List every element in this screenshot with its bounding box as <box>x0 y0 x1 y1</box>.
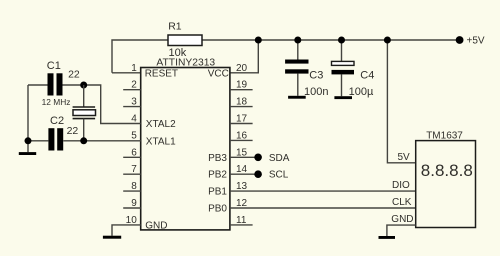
right pin stubs <box>230 90 416 225</box>
wire: C3 bottom to ground <box>297 74 299 96</box>
wire pin 3 stub <box>123 106 141 108</box>
svg-text:C4: C4 <box>360 70 374 82</box>
svg-text:PB2: PB2 <box>208 170 227 181</box>
+5V terminal <box>456 36 464 44</box>
svg-text:PB3: PB3 <box>208 153 227 164</box>
wire pin 13 to TM1637 DIO <box>230 190 416 192</box>
capacitor C3 <box>285 60 308 64</box>
svg-text:XTAL1: XTAL1 <box>146 136 176 147</box>
wire pin 18 stub <box>230 106 253 108</box>
wire pin 14 to SCL terminal <box>230 173 258 175</box>
wire pin 16 stub <box>230 139 253 141</box>
node: left rail / C2 junction <box>25 137 32 144</box>
wire: VCC drop to pin 20 <box>230 40 258 73</box>
svg-text:12: 12 <box>236 198 248 209</box>
svg-text:22: 22 <box>67 125 79 137</box>
wire pin 17 stub <box>230 123 253 125</box>
wire left rail <box>27 85 29 152</box>
svg-text:8.8.8.8: 8.8.8.8 <box>421 161 473 180</box>
wire: pin1 stub <box>112 72 141 74</box>
svg-text:R1: R1 <box>168 21 182 33</box>
junction dots on +5V rail <box>255 37 262 44</box>
wire pin 6 stub <box>123 156 141 158</box>
svg-text:100µ: 100µ <box>349 86 374 98</box>
svg-text:CLK: CLK <box>392 197 412 208</box>
svg-text:ATTINY2313: ATTINY2313 <box>156 58 215 69</box>
svg-text:PB1: PB1 <box>208 187 227 198</box>
svg-text:3: 3 <box>131 97 137 108</box>
wire pin 10 to ground <box>112 225 141 236</box>
pin numbers right <box>236 63 248 226</box>
capacitor C4 (polarized) <box>332 61 355 65</box>
svg-text:C1: C1 <box>47 60 61 72</box>
wire: +5V down to TM1637 5V pin <box>387 40 415 163</box>
svg-text:RESET: RESET <box>145 68 178 79</box>
wire C1 right to XTAL2 <box>63 85 141 124</box>
svg-text:14: 14 <box>236 164 248 175</box>
svg-text:100n: 100n <box>304 86 328 98</box>
ground C3 <box>288 96 306 99</box>
wire pin 8 stub <box>123 190 141 192</box>
svg-text:+5V: +5V <box>467 36 485 47</box>
svg-text:17: 17 <box>236 114 248 125</box>
wire crystal bottom lead <box>83 119 85 141</box>
wire: +5V rail right of R1 to terminal <box>202 39 460 41</box>
wire: C4 bottom to ground <box>341 74 343 96</box>
node SDA terminal <box>254 154 262 162</box>
svg-text:15: 15 <box>236 147 248 158</box>
svg-text:16: 16 <box>236 130 248 141</box>
node: crystal bottom junction <box>80 137 87 144</box>
pin numbers left <box>126 63 138 226</box>
wire pin 9 stub <box>123 207 141 209</box>
node SCL terminal <box>254 170 262 178</box>
left pin stubs 2,3,6,7,8,9 <box>112 90 141 236</box>
IC pin name labels <box>145 68 229 231</box>
svg-text:10: 10 <box>126 215 138 226</box>
svg-text:PB0: PB0 <box>208 204 227 215</box>
wire: C3 top <box>297 40 299 60</box>
svg-text:C3: C3 <box>309 70 323 82</box>
svg-text:9: 9 <box>131 198 137 209</box>
wire C1 left <box>28 84 48 86</box>
svg-text:SCL: SCL <box>269 170 289 181</box>
wire: C4 top <box>341 40 343 61</box>
svg-text:GND: GND <box>145 220 167 231</box>
wire crystal top lead <box>83 85 85 107</box>
svg-text:C2: C2 <box>50 115 64 127</box>
svg-text:20: 20 <box>236 63 248 74</box>
svg-text:GND: GND <box>391 214 413 225</box>
wire pin 12 to TM1637 CLK <box>230 207 416 209</box>
svg-text:SDA: SDA <box>269 153 290 164</box>
svg-text:19: 19 <box>236 80 248 91</box>
wire TM1637 GND to ground <box>387 225 416 236</box>
svg-text:18: 18 <box>236 97 248 108</box>
wire pin 5 XTAL1 line <box>63 140 141 142</box>
svg-text:VCC: VCC <box>208 68 229 79</box>
op IC U1 ATTINY2313 body <box>141 68 230 230</box>
node: crystal top junction <box>80 82 87 89</box>
svg-text:6: 6 <box>131 147 137 158</box>
svg-text:1: 1 <box>131 63 137 74</box>
ground under pin 10 <box>103 236 121 239</box>
ground left rail <box>19 152 36 155</box>
svg-text:12 MHz: 12 MHz <box>42 97 71 107</box>
svg-text:13: 13 <box>236 181 248 192</box>
wire pin 15 to SDA terminal <box>230 156 258 158</box>
resistor R1 <box>168 35 202 46</box>
wire pin 19 stub <box>230 89 253 91</box>
ground TM1637 <box>379 236 396 239</box>
svg-text:2: 2 <box>131 80 137 91</box>
ground C4 <box>334 96 352 99</box>
wire C2 left <box>28 140 48 142</box>
svg-text:7: 7 <box>131 164 137 175</box>
wire pin 2 stub <box>123 89 141 91</box>
svg-text:XTAL2: XTAL2 <box>146 119 176 130</box>
svg-text:11: 11 <box>236 215 247 226</box>
wire: +5V rail left segment (pin1 loop to R1) <box>112 40 168 73</box>
wire pin 7 stub <box>123 173 141 175</box>
svg-text:5V: 5V <box>398 152 411 163</box>
svg-text:5: 5 <box>131 130 137 141</box>
svg-text:DIO: DIO <box>392 180 410 191</box>
svg-text:22: 22 <box>68 69 80 81</box>
svg-text:8: 8 <box>131 181 137 192</box>
wire pin 11 stub <box>230 224 253 226</box>
